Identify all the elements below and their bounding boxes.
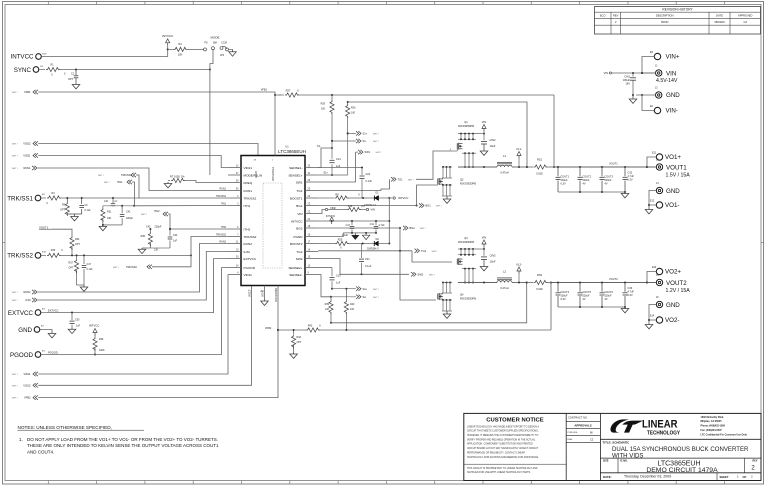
svg-text:GND: GND — [666, 92, 680, 99]
svg-text:CIRCUIT THAT MEETS CUSTOMER-SU: CIRCUIT THAT MEETS CUSTOMER-SUPPLIED SPE… — [467, 430, 539, 433]
svg-text:R7 162K 1%: R7 162K 1% — [170, 174, 185, 178]
svg-text:1uF: 1uF — [114, 200, 119, 203]
svg-text:1uF: 1uF — [336, 282, 341, 285]
svg-text:VOUT2: VOUT2 — [666, 280, 687, 287]
wire rail to VOUT1 jack — [647, 166, 656, 168]
power tap INTVCC (top) — [162, 34, 174, 46]
svg-text:ILIM: ILIM — [25, 298, 30, 302]
ground at E2 — [40, 330, 56, 338]
ground at VO1- — [645, 205, 653, 214]
svg-text:VFB1: VFB1 — [261, 88, 268, 91]
resistor R9 0 (BOOST1) — [318, 192, 374, 200]
svg-text:100K: 100K — [99, 349, 105, 352]
svg-text:SHT /: SHT / — [373, 297, 379, 299]
svg-text:VL2-: VL2- — [516, 262, 522, 266]
sheet connector RUN2 — [12, 290, 37, 294]
svg-text:C47: C47 — [87, 263, 92, 266]
svg-text:VIN-: VIN- — [666, 108, 678, 115]
turret E14 VO2- — [650, 315, 679, 325]
svg-text:VO2-: VO2- — [665, 317, 679, 324]
svg-text:R37: R37 — [69, 262, 74, 265]
capacitor COUT5 220uF 4V — [578, 283, 592, 308]
svg-text:THIS CIRCUIT IS PROPRIETARY TO: THIS CIRCUIT IS PROPRIETARY TO LINEAR TE… — [467, 467, 538, 470]
svg-text:Q4: Q4 — [460, 293, 464, 297]
sheet connector VFB1 — [12, 90, 38, 94]
customer notice text — [464, 417, 566, 474]
sheet connector S2+ — [332, 287, 379, 291]
svg-text:OPT: OPT — [69, 267, 74, 270]
svg-text:DESCRIPTION: DESCRIPTION — [656, 14, 674, 18]
svg-text:VIN: VIN — [482, 236, 487, 240]
capacitor CIN2 10uF — [481, 134, 496, 149]
svg-text:RUN2: RUN2 — [244, 242, 253, 246]
wire RUN2 to pin 11 — [38, 244, 229, 293]
svg-text:4V: 4V — [583, 298, 586, 301]
wire VID21 to pin 12 — [38, 156, 228, 168]
turret E10 TRK/SS2 — [7, 251, 46, 259]
svg-text:VOUT2: VOUT2 — [609, 277, 618, 281]
svg-text:INTVCC: INTVCC — [162, 34, 174, 38]
svg-text:RS1: RS1 — [537, 158, 543, 162]
svg-text:R30: R30 — [351, 107, 356, 110]
svg-text:10uF: 10uF — [490, 144, 496, 148]
svg-text:SHT /: SHT / — [373, 289, 379, 291]
sheet connector SW2 — [411, 272, 435, 276]
svg-text:VFB2: VFB2 — [265, 327, 272, 330]
svg-text:ITH2: ITH2 — [221, 226, 227, 229]
svg-text:0.1uF: 0.1uF — [85, 209, 92, 212]
svg-text:4.5V-14V: 4.5V-14V — [656, 78, 678, 84]
resistor R39 100 — [325, 297, 333, 324]
resistor R30 100 — [346, 102, 356, 134]
svg-text:SHT /: SHT / — [373, 134, 379, 136]
transistor Q3 RJK0305DPB (top FET ch2) — [457, 236, 480, 283]
resistor R34 OPT — [70, 236, 81, 255]
wire VID12 to IC bottom pin — [38, 286, 251, 386]
power tap INTVCC (R46) — [89, 324, 99, 336]
svg-text:C14: C14 — [336, 158, 341, 161]
svg-text:15K: 15K — [107, 217, 112, 220]
svg-text:RS2: RS2 — [537, 273, 543, 277]
sheet connector VFB2 — [12, 395, 38, 399]
svg-text:SHT /: SHT / — [98, 175, 104, 177]
svg-text:EXTVCC: EXTVCC — [48, 308, 59, 312]
wire PGND bus — [343, 232, 377, 234]
resistor R18 2.2 (VIN filter) — [328, 205, 366, 212]
capacitor COUT2 220uF 4V — [578, 167, 592, 192]
wire BG1 to gate of Q2 — [318, 185, 436, 207]
ground solid arrow at PGND bus — [352, 233, 359, 240]
wire VID11 to pin 4 — [38, 275, 228, 375]
svg-text:0.47uH: 0.47uH — [500, 171, 508, 175]
svg-text:HOWEVER, IT REMAINS THE CUSTOM: HOWEVER, IT REMAINS THE CUSTOMER'S RESPO… — [467, 434, 539, 437]
svg-text:0.1uF: 0.1uF — [366, 180, 373, 183]
svg-text:SHT /: SHT / — [12, 92, 18, 94]
svg-text:R39: R39 — [325, 303, 330, 306]
svg-text:RUN1: RUN1 — [244, 189, 253, 193]
svg-text:VOUT1: VOUT1 — [666, 164, 687, 171]
svg-text:SHT /: SHT / — [12, 398, 18, 400]
svg-text:SHT /: SHT / — [12, 168, 18, 170]
svg-text:CUSTOMER NOTICE: CUSTOMER NOTICE — [486, 417, 544, 423]
svg-text:0.1uF: 0.1uF — [87, 268, 94, 271]
svg-text:S1-: S1- — [363, 139, 367, 143]
svg-text:WITH VIDS: WITH VIDS — [612, 452, 643, 459]
jack J2 GND — [655, 87, 680, 100]
svg-text:INTVCC: INTVCC — [326, 215, 336, 218]
resistor R40 100 — [344, 289, 355, 330]
svg-text:INTVCC: INTVCC — [398, 196, 408, 200]
svg-text:C50: C50 — [75, 319, 80, 322]
wire SW1 node rail — [458, 149, 497, 169]
svg-text:R25: R25 — [338, 239, 343, 242]
capacitor C47 0.1uF — [82, 255, 93, 285]
ground at SGND — [261, 299, 269, 305]
ground under R31/C42 — [99, 224, 122, 231]
svg-text:CCM: CCM — [221, 41, 226, 44]
svg-text:PGOOD: PGOOD — [48, 350, 58, 354]
svg-text:VIN+: VIN+ — [666, 54, 680, 61]
svg-text:C42: C42 — [126, 211, 131, 214]
svg-text:LINEAR TECHNOLOGY HAS MADE A B: LINEAR TECHNOLOGY HAS MADE A BEST EFFORT… — [467, 425, 539, 428]
size / ic no / rev row — [603, 458, 758, 474]
wire VFB1 to RS1+ sense (line A) — [297, 94, 555, 168]
transistor Q1 RJK0305DPB (top FET ch1) — [457, 120, 480, 168]
svg-text:PCB DES.: PCB DES. — [568, 432, 579, 434]
svg-text:C17: C17 — [346, 224, 351, 227]
svg-text:CIRCUIT BOARD LAYOUT MAY SIGNI: CIRCUIT BOARD LAYOUT MAY SIGNIFICANTLY A… — [467, 447, 539, 450]
capacitor C21 0.1uF — [359, 244, 372, 275]
svg-text:S2-: S2- — [363, 295, 367, 299]
wire VIDSENSE1 pin from VFB1 — [274, 95, 276, 156]
svg-text:GND: GND — [666, 302, 680, 309]
sheet connector VID12 — [12, 383, 38, 387]
ground under R37/C47 — [77, 285, 88, 291]
ground open arrow at PGND bus — [362, 233, 369, 240]
label VOUT1 tap — [39, 225, 72, 236]
capacitor C42 220pF — [120, 206, 134, 225]
svg-text:ITH2: ITH2 — [154, 209, 160, 213]
resistor R3 (series) — [41, 192, 61, 205]
svg-text:NOTES: UNLESS OTHERWISE SPECIF: NOTES: UNLESS OTHERWISE SPECIFIED, — [18, 425, 112, 430]
wire TRK/SS2 to pin 7 — [191, 237, 228, 256]
capacitor C1 OPT — [64, 70, 78, 84]
svg-text:VID12: VID12 — [23, 383, 31, 387]
wire TG1 to gate of Q1 — [318, 179, 390, 190]
power tap VIN label (input) — [604, 71, 612, 75]
resistor R7 162K 1% — [164, 174, 228, 188]
resistor RS2 0.002 — [526, 273, 551, 291]
wire VFB1 long net — [38, 88, 281, 96]
revision history table — [595, 7, 761, 35]
svg-text:TRK/SS1: TRK/SS1 — [7, 195, 33, 202]
wire VOUT2 rail — [551, 277, 655, 283]
capacitor COUT4 100uF 6.3V — [556, 283, 570, 308]
svg-text:APPLICATION. COMPONENT SUBSTI: APPLICATION. COMPONENT SUBSTITUTION AND … — [467, 443, 533, 446]
svg-text:VL1-: VL1- — [516, 147, 522, 151]
turret E5 VIN+ — [650, 51, 680, 61]
svg-text:VIN: VIN — [297, 212, 302, 216]
svg-text:CMDSH-3: CMDSH-3 — [364, 203, 376, 207]
svg-text:MI: MI — [590, 432, 593, 435]
svg-text:GND: GND — [666, 188, 680, 195]
wire PGOOD to pin 14 — [41, 268, 228, 355]
wire SENSE2- jog to S2- row — [318, 275, 332, 298]
svg-text:VID21: VID21 — [244, 166, 253, 170]
resistor R33 OPT — [292, 330, 302, 352]
svg-text:VID11: VID11 — [23, 372, 31, 376]
svg-text:OPT: OPT — [68, 78, 74, 81]
turret E4 PGOOD — [10, 350, 46, 358]
op-amp U1 LTC3865EUH (controller IC) — [228, 144, 318, 302]
wire TRK/SS2 row — [59, 254, 192, 256]
sheet connector RUN1 — [12, 166, 37, 170]
svg-text:TECHNOLOGY APPLICATIONS ENGINE: TECHNOLOGY APPLICATIONS ENGINEERING FOR … — [467, 456, 539, 459]
svg-text:VERIFY PROPER AND RELIABLE OPE: VERIFY PROPER AND RELIABLE OPERATION IN … — [467, 438, 536, 441]
turret E19 INTVCC — [10, 53, 47, 60]
svg-text:DATE: DATE — [716, 14, 723, 18]
ground under R35 — [138, 248, 150, 254]
svg-text:SHT /: SHT / — [429, 274, 435, 276]
svg-text:CONTRACT NO.: CONTRACT NO. — [568, 416, 588, 420]
ground at JP3 — [229, 49, 237, 56]
ground under R33 — [290, 352, 298, 358]
svg-text:SHT /: SHT / — [12, 144, 18, 146]
svg-text:REVISION HISTORY: REVISION HISTORY — [662, 8, 693, 12]
capacitor C50 1uF — [70, 313, 81, 329]
resistor R43 0 — [306, 324, 321, 332]
svg-text:R36: R36 — [51, 249, 56, 252]
title text — [603, 440, 750, 459]
svg-text:APPROVALS: APPROVALS — [574, 423, 591, 427]
svg-text:RUN1: RUN1 — [23, 166, 31, 170]
svg-text:SW1: SW1 — [365, 150, 371, 154]
svg-text:SHT /: SHT / — [373, 141, 379, 143]
svg-text:OF: OF — [743, 475, 747, 479]
svg-text:BOOST2: BOOST2 — [290, 242, 303, 246]
capacitor C2 0.1uF — [79, 198, 91, 214]
svg-text:4V: 4V — [583, 182, 586, 185]
svg-text:10K: 10K — [178, 52, 183, 56]
svg-text:L1: L1 — [503, 154, 507, 158]
svg-text:SHT /: SHT / — [12, 385, 18, 387]
resistor R35 12K — [141, 232, 159, 252]
turret E1 SYNC — [14, 66, 44, 74]
sheet connector ILIM — [12, 298, 37, 302]
diode D2 CMDSH-3 — [367, 238, 390, 250]
title block outline — [464, 413, 761, 480]
turret E9 TRK/SS1 — [7, 194, 45, 202]
svg-text:ENG.: ENG. — [568, 439, 574, 441]
sheet connector TRK/SS1 (mid) — [98, 173, 136, 177]
wire SW1 pin to arrow — [318, 152, 356, 182]
wire BG2 to gate of Q4 — [318, 227, 436, 300]
svg-text:R35: R35 — [141, 235, 146, 238]
svg-text:RJK0330DPB: RJK0330DPB — [460, 182, 476, 186]
svg-text:INTVCC: INTVCC — [10, 54, 34, 61]
svg-text:BOOST1: BOOST1 — [290, 196, 303, 200]
jack J1 VIN — [655, 65, 678, 85]
svg-text:SENSE1+: SENSE1+ — [288, 173, 302, 177]
resistor R4 10K — [168, 42, 204, 56]
svg-text:OPT: OPT — [75, 243, 80, 246]
svg-text:RJK0305DPB: RJK0305DPB — [458, 240, 474, 244]
wire S2 sense line (lower, to RS2 left) — [331, 282, 528, 323]
svg-text:SW2: SW2 — [296, 257, 303, 261]
svg-text:R43: R43 — [308, 324, 313, 327]
svg-text:ILIM: ILIM — [244, 250, 250, 254]
svg-text:Fax: (408)434-0507: Fax: (408)434-0507 — [701, 429, 723, 432]
svg-text:RJK0330DPB: RJK0330DPB — [460, 297, 476, 301]
wire D1 to INTVCC rail — [388, 198, 390, 245]
svg-text:6.3V: 6.3V — [561, 182, 566, 185]
ground at COUT bus ch1 — [621, 192, 629, 198]
wire COUT ground bus ch2 — [558, 306, 626, 308]
svg-text:L2: L2 — [503, 270, 507, 274]
svg-text:CZ: CZ — [590, 439, 594, 442]
resistor R31 15K — [101, 206, 112, 225]
svg-text:AND COUT4.: AND COUT4. — [27, 450, 54, 455]
svg-text:VIN: VIN — [604, 71, 608, 75]
svg-text:ITH1: ITH1 — [117, 180, 123, 184]
inductor L2 0.47uH — [497, 270, 527, 290]
svg-text:SHT /: SHT / — [420, 228, 426, 230]
svg-text:4V: 4V — [605, 182, 608, 185]
svg-text:DO NOT APPLY LOAD FROM THE VO1: DO NOT APPLY LOAD FROM THE VO1+ TO VO1- … — [27, 437, 218, 442]
svg-text:E12: E12 — [650, 200, 655, 203]
svg-text:PS: PS — [204, 41, 208, 44]
svg-text:EXTVCC: EXTVCC — [244, 257, 257, 261]
wire TG2 to gate of Q3 — [318, 250, 452, 262]
wire S1 sense line B — [347, 101, 528, 168]
svg-text:SYNC: SYNC — [14, 67, 32, 74]
svg-text:1uF: 1uF — [173, 240, 178, 243]
svg-text:TRK/SS1: TRK/SS1 — [216, 195, 227, 198]
wire GND jack to VO1- — [648, 191, 656, 207]
resistor R1 0 — [39, 64, 60, 77]
svg-text:16V: 16V — [626, 83, 631, 86]
capacitor CIN3 10uF — [481, 249, 496, 264]
svg-text:GND: GND — [18, 327, 32, 334]
ground under C1 — [72, 84, 80, 89]
resistor R46 100K — [93, 335, 105, 356]
power tap INTVCC at pin 21 — [318, 215, 389, 224]
svg-text:R9: R9 — [335, 192, 339, 196]
svg-text:SW2: SW2 — [418, 272, 424, 276]
svg-text:SW1: SW1 — [296, 180, 303, 184]
svg-text:SHT /: SHT / — [113, 267, 119, 269]
svg-text:1.2V / 15A: 1.2V / 15A — [666, 288, 691, 294]
wire SENSE1+ row S1+ — [318, 132, 349, 175]
wire TG1 gate wire Q1 — [450, 148, 458, 152]
svg-text:SHT /: SHT / — [141, 214, 147, 216]
svg-text:PGOOD: PGOOD — [10, 352, 34, 359]
wire VFB2 to RS2+ sense — [318, 282, 552, 332]
svg-text:LTC3865EUH: LTC3865EUH — [278, 149, 306, 154]
transistor Q4 RJK0330DPB (bottom FET ch2) — [438, 282, 476, 312]
svg-text:INTVCC: INTVCC — [291, 219, 303, 223]
wire SENSE1- row to C20 top — [318, 167, 363, 169]
svg-text:0.1uF: 0.1uF — [365, 265, 372, 268]
transistor Q2 RJK0330DPB (bottom FET ch1) — [438, 166, 476, 196]
capacitor C11 4.7uF — [370, 221, 385, 233]
svg-text:E11: E11 — [652, 152, 657, 155]
wire VIN feed — [612, 72, 656, 74]
power tap VL1- — [516, 147, 522, 168]
svg-text:12K: 12K — [154, 249, 159, 252]
svg-text:SENSE1-: SENSE1- — [289, 166, 302, 170]
sheet connector TG1 — [391, 151, 452, 182]
sheet connector S1- — [331, 139, 379, 143]
svg-text:CMDSH-3: CMDSH-3 — [367, 246, 379, 250]
wire ILIM to pin 13 — [38, 252, 229, 301]
svg-text:Thursday, December 03, 2009: Thursday, December 03, 2009 — [624, 475, 671, 479]
sheet connector ITH1 (mid) — [104, 180, 132, 184]
wire SW2 node rail — [458, 264, 497, 284]
svg-text:U1: U1 — [285, 144, 289, 148]
wire SW2 pin row — [318, 259, 409, 276]
svg-text:0.002: 0.002 — [536, 172, 543, 176]
svg-text:FREQ: FREQ — [244, 181, 253, 185]
svg-text:220pF: 220pF — [155, 226, 162, 229]
svg-text:MODE/PLLIN: MODE/PLLIN — [244, 173, 263, 177]
svg-text:R40: R40 — [350, 303, 355, 306]
svg-text:DEMO CIRCUIT 1479A: DEMO CIRCUIT 1479A — [646, 467, 718, 474]
svg-text:IC NO.: IC NO. — [620, 460, 628, 463]
svg-text:SHT /: SHT / — [432, 251, 438, 253]
svg-text:Q3: Q3 — [464, 236, 468, 240]
wire VIN+ to VIN — [641, 57, 656, 75]
turret E12 VO1- — [650, 200, 679, 210]
svg-text:LTC Confidential For Customer: LTC Confidential For Customer Use Only — [701, 433, 748, 436]
wire ITH1 node line — [103, 205, 135, 207]
svg-text:100: 100 — [321, 108, 326, 111]
svg-text:VID21: VID21 — [23, 154, 31, 158]
wire VIDSENSE2 pin to VFB2 node — [277, 286, 279, 332]
ground under C50 — [68, 328, 76, 334]
svg-text:SENSE2-: SENSE2- — [289, 273, 302, 277]
svg-text:6.3V: 6.3V — [628, 178, 633, 181]
svg-text:TG1: TG1 — [296, 189, 302, 193]
ground at COUT bus ch2 — [621, 307, 629, 313]
svg-text:0.47uH: 0.47uH — [500, 286, 508, 290]
svg-text:VOUT1: VOUT1 — [39, 225, 49, 229]
sheet connector SW1 — [356, 150, 382, 154]
wire VID22 to IC top pin — [38, 144, 258, 156]
ground at VO2- — [645, 320, 653, 329]
svg-text:ITH2: ITH2 — [244, 227, 251, 231]
svg-text:R29: R29 — [321, 103, 326, 106]
svg-text:4.7uF: 4.7uF — [379, 224, 386, 227]
svg-text:220pF: 220pF — [126, 217, 133, 220]
svg-text:PROD: PROD — [661, 20, 669, 24]
svg-text:OPT: OPT — [60, 209, 65, 212]
svg-text:S1-: S1- — [317, 145, 321, 148]
svg-text:THESE ARE ONLY INTENDED TO KEL: THESE ARE ONLY INTENDED TO KELVIN SENSE … — [27, 443, 219, 448]
inductor L1 0.47uH — [497, 154, 527, 174]
wire SENSE1- jog to S1- node — [317, 145, 333, 168]
svg-text:100: 100 — [350, 308, 355, 311]
svg-text:VID11: VID11 — [244, 273, 253, 277]
svg-text:VO1-: VO1- — [665, 202, 679, 209]
svg-text:10uF: 10uF — [490, 260, 496, 264]
turret E2 GND — [18, 325, 44, 333]
ground under CIN1 — [629, 94, 637, 103]
ground under CIN3 — [480, 264, 488, 271]
svg-text:SHT /: SHT / — [436, 206, 442, 208]
sheet connector BG1 — [419, 203, 442, 207]
svg-text:TG2: TG2 — [296, 250, 302, 254]
